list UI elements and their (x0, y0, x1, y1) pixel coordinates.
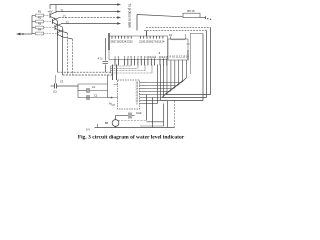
wire probe line 2 (56, 11, 119, 13)
wire wrap2 top (144, 30, 207, 32)
wire U3 pin1 link (187, 43, 191, 45)
svg-text:C1: C1 (92, 85, 96, 89)
wire Q1 emitter drop (57, 21, 59, 72)
resistor R2 (32, 21, 36, 23)
IC U2 right pin stubs (140, 82, 146, 84)
wire osc stub 2 (114, 97, 119, 99)
crystal loop (78, 83, 108, 85)
svg-text:4.7u: 4.7u (98, 58, 103, 61)
wire wrap2 bottom (164, 97, 207, 99)
node common probe arrow (20, 33, 33, 35)
transistor Q4 (57, 31, 59, 36)
svg-text:R4: R4 (38, 27, 42, 31)
svg-text:BZ: BZ (105, 121, 109, 125)
wire wrap1 top (146, 27, 211, 29)
wire IC1 left edge dark (108, 33, 110, 50)
wire fan vertical 6 (186, 60, 188, 78)
wire emitter drop Q3 (61, 31, 68, 33)
wire U3 right edge dark (187, 50, 189, 60)
wire osc out (108, 97, 114, 99)
svg-text:R5 1K: R5 1K (187, 9, 195, 13)
capacitor C3 (55, 75, 57, 84)
wire ladder y100.5 (146, 100, 161, 102)
wire fan vertical 2 (170, 60, 172, 90)
wire left fan riser 2 (137, 65, 139, 69)
wire left fan edge (110, 66, 112, 73)
wire ground rail (95, 127, 175, 129)
wire fan diagonal 3 (170, 87, 175, 92)
svg-text:+6V: +6V (47, 10, 52, 14)
wire probe line 4 (61, 23, 119, 25)
wire fan vertical 5 (182, 60, 184, 81)
wire rail A (58, 71, 112, 73)
IC U3 top pin 1 (185, 36, 187, 39)
wire Q2 emitter drop (62, 27, 64, 75)
wire bus column 1 (157, 65, 159, 104)
wire Q4 emitter drop (72, 39, 74, 75)
wire drop D (167, 101, 169, 128)
wire wrap2 tap to IC1 (146, 31, 148, 37)
wire left fan 4 (111, 72, 153, 74)
capacitor C1 (78, 90, 87, 92)
svg-text:To probes in tank: To probes in tank (127, 4, 131, 29)
wire fan diagonal 4 (174, 84, 179, 89)
wire left fan riser 1 (130, 65, 132, 67)
wire fan vertical 4 (178, 60, 180, 84)
resistor R1 (32, 15, 36, 17)
op IC U1 box (109, 36, 168, 60)
svg-text:22: 22 (130, 39, 134, 43)
wire left fan 3 (111, 70, 146, 72)
svg-text:12: 12 (153, 55, 157, 59)
wire wrap3 top (190, 33, 203, 35)
svg-text:R2: R2 (38, 15, 42, 19)
svg-text:10uF: 10uF (136, 112, 142, 115)
wire bus column 3 (163, 65, 165, 98)
wire U3 pin1 up (189, 34, 191, 45)
wire buzzer top line (116, 115, 129, 117)
svg-text:R1: R1 (38, 9, 42, 13)
wire drop E dashed (174, 101, 176, 128)
wire emitter drop Q1 (56, 19, 58, 21)
wire fan diagonal 5 (178, 81, 183, 86)
wire wrap2 right (206, 31, 208, 98)
svg-text:(C): (C) (53, 90, 57, 94)
svg-text:C3: C3 (60, 80, 64, 84)
wire ladder y82.5 (146, 82, 182, 84)
wire bus column 2 (160, 65, 162, 101)
wire base R3 to Q3 (44, 27, 55, 29)
wire IC1 to IC2 left feed 2 (116, 65, 118, 81)
wire Q3 emitter drop (67, 33, 69, 75)
node +6V supply rail (50, 4, 119, 6)
IC U3 top pin 16 (170, 36, 172, 39)
wire ladder y97.5 (146, 97, 164, 99)
wire fan diagonal 6 (182, 78, 187, 83)
wire wrap3 bottom (161, 100, 204, 102)
resistor R4 (32, 33, 36, 35)
wire U3 top link (171, 39, 186, 41)
IC U3 box (168, 39, 188, 60)
wire loop to rail (107, 75, 109, 84)
wire drop C (163, 104, 165, 127)
wire supply tick (49, 5, 51, 10)
wire dashed bottom link (118, 120, 147, 122)
wire rail B (63, 74, 113, 76)
wire spiral bottom (147, 121, 164, 123)
wire emitter drop Q4 (63, 37, 73, 39)
transistor Q1 (49, 13, 51, 18)
svg-text:C2: C2 (94, 93, 98, 97)
wire left base rail (31, 16, 33, 35)
wire left fan riser 3 (144, 65, 146, 71)
buzzer BZ1 (115, 116, 117, 120)
wire osc stub 1 (114, 84, 119, 86)
wire base R1 to Q1 (44, 15, 50, 17)
wire fan vertical 3 (174, 60, 176, 87)
wire U3 pin1 drop (189, 44, 191, 74)
capacitor C2 (86, 95, 88, 100)
IC U1 top pins group2 (140, 36, 142, 39)
wire ladder y88.5 (146, 88, 174, 90)
node battery terminal (200, 16, 206, 18)
wire wrap1 right (210, 28, 212, 95)
IC U1 top pins group1 (111, 36, 113, 39)
wire fan vertical 1 (166, 60, 168, 93)
wire left fan 1 (111, 65, 132, 67)
wire Vcc horizontal (137, 15, 183, 17)
resistor R5 (183, 13, 200, 17)
resistor R3 (32, 27, 36, 29)
wire emitter drop Q2 (58, 25, 63, 27)
wire base R4 to Q4 (44, 33, 58, 35)
svg-text:Fig. 3 circuit diagram of wate: Fig. 3 circuit diagram of water level in… (78, 134, 185, 140)
wire wrap1 bottom (166, 94, 211, 96)
wire Vcc corner vertical (136, 15, 138, 31)
wire IC1 to IC2 left feed 1 (112, 65, 114, 81)
svg-text:14: 14 (161, 39, 165, 43)
wire T1 collector tie (55, 5, 57, 14)
IC U2 box (118, 80, 140, 109)
capacitor C5 (128, 113, 130, 119)
wire wrap3 right (202, 34, 204, 101)
wire base R2 to Q2 (44, 21, 53, 23)
capacitor C4 (105, 38, 107, 61)
wire fan diagonal 2 (166, 90, 171, 95)
wire fan diagonal 1 (162, 93, 167, 98)
wire rail tick (97, 124, 99, 128)
svg-text:R3: R3 (38, 21, 42, 25)
wire left fan riser 4 (151, 65, 153, 74)
svg-text:0 V: 0 V (86, 127, 90, 131)
wire ladder y103.5 (146, 103, 158, 105)
wire ladder y94.5 (146, 94, 166, 96)
wire drop A (146, 95, 148, 121)
transistor Q2 (52, 19, 54, 24)
wire probe line 3 (59, 17, 119, 19)
wire bottom link2 (140, 125, 164, 127)
wire ladder y85.5 (146, 85, 178, 87)
transistor Q3 (54, 25, 56, 30)
wire left fan 2 (111, 67, 139, 69)
wire ladder y91.5 (146, 91, 170, 93)
wire drop B (152, 98, 154, 128)
